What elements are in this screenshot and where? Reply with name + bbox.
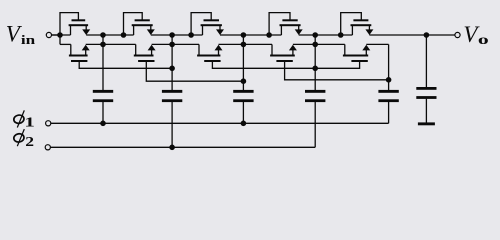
wire output column — [425, 35, 427, 87]
junction gate1 at node2 — [169, 66, 175, 72]
terminal phi2 — [45, 145, 50, 150]
junction C2 at phi2 — [169, 145, 175, 151]
capacitor C4 — [305, 90, 325, 102]
wire top rail segment 4 — [220, 34, 281, 36]
wire bottom rail segment 4 — [219, 43, 273, 45]
capacitor Cout — [416, 87, 436, 99]
wire node 3 column lower — [242, 102, 244, 124]
wire Cout to ground — [425, 99, 427, 123]
wire phi2 line — [50, 146, 315, 148]
capacitor C1 — [93, 90, 113, 102]
transistor M5 top (diode-connected MOSFET) — [341, 13, 374, 35]
ground — [418, 122, 435, 125]
transistor M9 bottom (charge-transfer switch) — [270, 44, 389, 79]
junction gate2 at node3 — [241, 78, 247, 84]
wire node 3 column upper — [242, 35, 244, 90]
wire bottom rail segment 5 — [293, 43, 345, 45]
transistor M4 top (diode-connected MOSFET) — [269, 13, 303, 35]
label phi1 — [13, 110, 35, 129]
node gate landing M4 — [266, 32, 272, 38]
label Vo — [463, 22, 488, 47]
wire node 5 column lower — [388, 102, 390, 124]
wire bottom rail segment 1 — [60, 43, 71, 45]
svg-text:2: 2 — [25, 135, 34, 150]
transistor M6 bottom (charge-transfer switch) — [69, 44, 172, 68]
wire node 4 column lower — [314, 102, 316, 148]
label phi2 — [13, 129, 34, 149]
svg-text:1: 1 — [24, 114, 34, 129]
node gate landing M3 — [188, 32, 194, 38]
node gate landing M1 — [57, 32, 63, 38]
label Vin — [6, 21, 36, 47]
wire top rail segment 1 — [52, 34, 71, 36]
transistor M7 bottom (charge-transfer switch) — [134, 44, 244, 81]
terminal Vo — [455, 32, 460, 37]
junction top wire x=315.2 — [312, 32, 318, 38]
wire node 1 column upper — [102, 35, 104, 90]
wire node 5 column upper — [388, 44, 390, 90]
wire bottom rail segment 3 — [152, 43, 199, 45]
terminal Vin — [46, 32, 51, 37]
svg-text:in: in — [21, 33, 36, 48]
junction output node — [424, 32, 430, 38]
junction top wire x=172.1 — [169, 32, 175, 38]
wire phi1 line — [51, 122, 389, 124]
junction bottom rail x=172.1 — [169, 42, 175, 48]
capacitor C3 — [233, 90, 253, 102]
wire input node stub down — [59, 35, 61, 44]
transistor M1 top (diode-connected MOSFET) — [60, 13, 90, 35]
wire node 2 column lower — [171, 102, 173, 148]
wire top rail segment 5 — [299, 34, 353, 36]
junction gate3/gate5 at node4 — [312, 66, 318, 72]
transistor M3 top (diode-connected MOSFET) — [191, 13, 224, 35]
transistor M2 top (diode-connected MOSFET) — [124, 13, 155, 35]
wire node 1 column lower — [102, 102, 104, 124]
junction top wire x=243.4 — [241, 32, 247, 38]
junction top wire x=103.0 — [100, 32, 106, 38]
junction bottom rail x=243.4 — [241, 42, 247, 48]
wire bottom rail segment 2 — [86, 43, 136, 45]
transistor M10 bottom (charge-transfer switch) — [315, 44, 370, 68]
junction bottom rail x=103.0 — [100, 42, 106, 48]
junction C3 at phi1 — [241, 121, 247, 127]
wire node 2 column upper — [171, 35, 173, 90]
capacitor C2 — [162, 90, 182, 102]
wire Vin terminal to input node — [52, 34, 61, 36]
wire top rail segment 6 — [369, 34, 455, 36]
node gate landing M2 — [121, 32, 127, 38]
junction gate4 at node5 — [386, 77, 392, 83]
capacitor C5 — [378, 90, 398, 102]
svg-text:o: o — [478, 32, 489, 47]
wire top rail segment 3 — [151, 34, 203, 36]
wire top rail segment 2 — [86, 34, 133, 36]
wire bottom rail segment 6 — [366, 43, 388, 45]
wire node 4 column upper — [314, 35, 316, 90]
terminal phi1 — [46, 121, 51, 126]
junction C1 at phi1 — [100, 121, 106, 127]
junction bottom rail x=315.2 — [312, 42, 318, 48]
transistor M8 bottom (charge-transfer switch) — [197, 44, 315, 68]
node gate landing M5 — [338, 32, 344, 38]
